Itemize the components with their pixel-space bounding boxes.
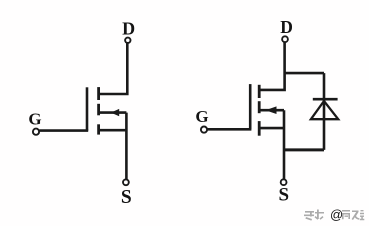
terminal circle D (Q1) [125,38,130,43]
transistor Q2 (right N-channel MOSFET with body diode) [195,17,293,206]
Q1 channel bottom segment [97,124,100,134]
arrowhead on Q2 body (N-channel, points to channel) [265,106,276,114]
terminal circle S (Q1) [123,179,129,185]
wire: Q2 source horizontal from channel [259,127,284,130]
svg-text:G: G [195,107,208,126]
watermark 头条@卢飞铁 (gray, bottom right) [304,207,364,222]
Q2 channel bottom segment [258,121,261,136]
diode D1 cathode bar [313,98,338,101]
wire: Q1 body connection with arrow to source [99,111,127,114]
terminal circle D (Q2) [282,36,288,42]
wire: Q2 gate lead from G terminal [207,128,251,131]
wire: Q1 source horizontal from channel [99,129,127,132]
wire: Q1 drain lead from D terminal down and left to channel [99,43,128,94]
Q1 channel top segment [97,87,100,100]
wire: Q2 body connection with arrow to source [259,109,284,112]
wire: diode anode to source node (bottom branch) [284,148,324,151]
arrowhead on Q1 body (N-channel, points to channel) [111,109,119,116]
Q2 channel middle segment [258,101,261,113]
svg-text:S: S [121,187,132,208]
wire: Q2 drain lead from D terminal down to channel [259,42,284,90]
diode D1 (Q2 body diode) [284,73,338,150]
wire: Q1 source lead vertical down to S terminal [125,113,128,180]
svg-text:D: D [122,18,135,38]
wire: Q2 source lead vertical down to S terminal [283,110,286,179]
Q1 channel middle segment [97,104,100,116]
Q1 gate electrode bar [86,87,89,130]
svg-text:@: @ [330,207,343,222]
terminal circle G (Q2) [201,127,207,133]
terminal circle S (Q2) [281,179,287,185]
svg-text:S: S [279,185,290,206]
svg-text:G: G [28,109,41,128]
transistor Q1 (left N-channel MOSFET) [28,18,135,208]
terminal circle G (Q1) [33,129,39,135]
wire: drain node to diode cathode (top branch) [285,72,324,75]
wire: diode vertical through symbol [323,73,326,150]
Q2 gate electrode bar [249,84,252,129]
diode D1 triangle (anode, pointing up) [311,101,338,119]
wire: Q1 gate lead from G terminal [39,129,88,132]
Q2 channel top segment [258,85,261,98]
svg-text:D: D [280,17,293,37]
